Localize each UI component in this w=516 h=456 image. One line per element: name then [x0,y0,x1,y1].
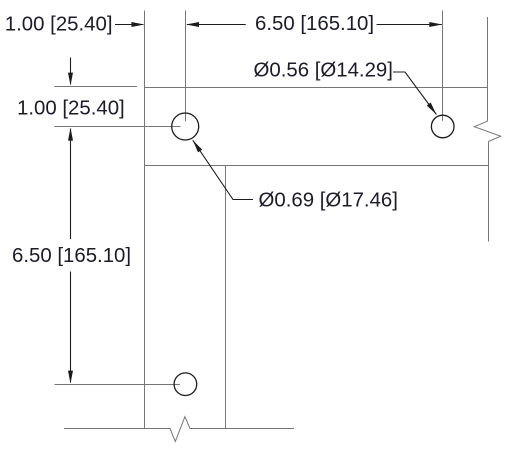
svg-text:6.50 [165.10]: 6.50 [165.10] [12,245,131,267]
leader line hole 2 [393,72,436,115]
break symbol right edge [474,121,500,141]
arrowhead 6.50 top pointing left [186,22,199,27]
arrowhead 6.50 top pointing right [429,22,442,27]
svg-text:6.50 [165.10]: 6.50 [165.10] [255,13,374,35]
hole 1 circle [172,113,199,140]
arrowhead 1.00 vertical pointing down [68,73,73,86]
leader line hole 1 [193,140,253,199]
centerline hole 1 horizontal [55,126,181,128]
hole 2 circle [431,115,454,138]
dimension line 6.50 vertical lower part [70,272,72,383]
svg-text:Ø0.56 [Ø14.29]: Ø0.56 [Ø14.29] [254,59,393,81]
inner vertical edge [225,166,227,429]
dimension line 6.50 top left part [187,24,246,26]
svg-text:Ø0.69 [Ø17.46]: Ø0.69 [Ø17.46] [259,190,398,212]
dimension line 6.50 top right part [377,24,442,26]
right edge lower segment [488,142,490,242]
arrowhead 6.50 vertical pointing up [68,128,73,141]
arrowhead leader hole 2 [427,103,437,115]
right edge upper segment [487,17,489,121]
svg-text:1.00 [25.40]: 1.00 [25.40] [17,98,125,120]
extension line top edge left [55,86,138,88]
left edge of plate with extension line [144,11,146,429]
dimension line 1.00 top [115,24,143,26]
dimension line 6.50 vertical upper part [70,129,72,240]
centerline hole 1 vertical [185,11,187,122]
arrowhead 1.00 top pointing right [131,22,144,27]
centerline hole 2 vertical [442,11,444,121]
top edge of plate [145,87,488,89]
inner horizontal edge [145,165,489,167]
hole 3 circle [174,373,197,396]
svg-text:1.00 [25.40]: 1.00 [25.40] [5,13,113,35]
arrowhead leader hole 1 [193,140,202,152]
arrowhead 6.50 vertical pointing down [68,371,73,384]
centerline hole 3 horizontal [55,384,180,386]
bottom break line [64,417,294,442]
dimension line 1.00 vertical upper [70,58,72,85]
